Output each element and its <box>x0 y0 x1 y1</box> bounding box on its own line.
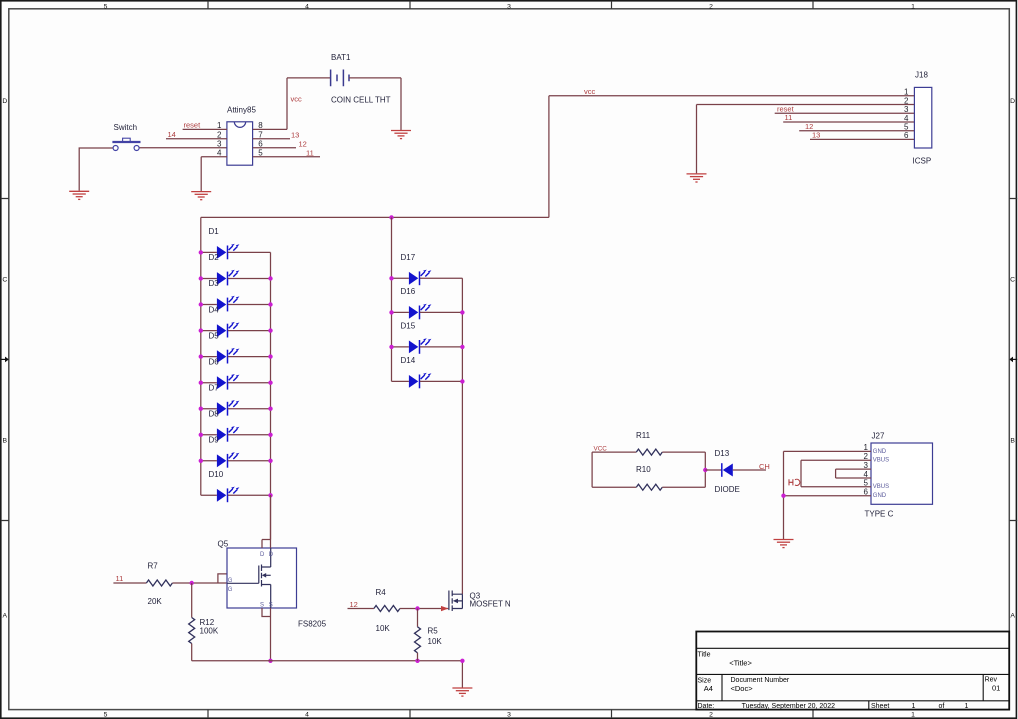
svg-text:D: D <box>2 98 7 105</box>
wire D9 cathode <box>228 460 271 462</box>
wire D4 anode <box>201 330 217 332</box>
svg-text:vcc: vcc <box>584 87 596 96</box>
svg-text:Q5: Q5 <box>218 540 229 549</box>
svg-text:6: 6 <box>258 140 263 149</box>
wire D8 anode <box>201 434 217 436</box>
svg-text:5: 5 <box>258 149 263 158</box>
wire U1 pin5 net 11 <box>253 156 320 158</box>
svg-text:100K: 100K <box>200 627 219 636</box>
svg-text:G: G <box>228 578 233 584</box>
svg-text:J27: J27 <box>872 431 885 440</box>
wire switch to ground <box>79 148 113 191</box>
wire R7 to Q5 gate G2 <box>172 582 227 584</box>
junction anode bus <box>199 276 203 280</box>
svg-text:10K: 10K <box>376 624 391 633</box>
svg-text:4: 4 <box>904 114 909 123</box>
junction anode bus <box>199 250 203 254</box>
resistor R4 <box>374 606 400 612</box>
svg-text:4: 4 <box>864 470 869 479</box>
Q5 internal MOSFET symbol <box>227 548 271 608</box>
svg-text:S: S <box>260 603 264 609</box>
svg-text:2: 2 <box>904 96 909 105</box>
resistor R10 <box>636 484 662 490</box>
svg-text:A4: A4 <box>704 684 713 693</box>
ground rail <box>452 688 472 696</box>
svg-text:D14: D14 <box>401 356 416 365</box>
wire battery right to ground <box>349 78 401 130</box>
border ticks top <box>208 1 813 9</box>
svg-text:TYPE C: TYPE C <box>865 510 894 519</box>
svg-text:5: 5 <box>904 123 909 132</box>
junction J27 ground node <box>781 494 785 498</box>
border mid arrow right <box>1013 358 1017 360</box>
transistor Q3 MOSFET N symbol <box>449 591 463 612</box>
dual MOSFET U Q5 FS8205 body <box>227 548 297 608</box>
wire LED array 2 cathode bus to Q3 drain <box>461 278 463 594</box>
wire LED array 2 anode bus <box>391 217 393 381</box>
svg-text:Rev: Rev <box>985 677 998 684</box>
net label CH rotated at J27 <box>789 479 800 485</box>
svg-text:5: 5 <box>104 4 108 11</box>
wire vcc feed to LED arrays <box>201 216 549 218</box>
junction anode bus 2 <box>389 276 393 280</box>
svg-text:4: 4 <box>217 149 222 158</box>
wire LED array 1 cathode bus <box>270 252 272 539</box>
junction anode bus <box>199 407 203 411</box>
svg-text:3: 3 <box>507 4 511 11</box>
junction anode bus <box>199 302 203 306</box>
svg-text:6: 6 <box>904 131 909 140</box>
svg-text:<Title>: <Title> <box>729 659 752 668</box>
LED D3 <box>217 296 240 312</box>
junction R5 / rail <box>415 659 419 663</box>
wire vcc run to J18 pin1 <box>549 96 915 218</box>
svg-text:8: 8 <box>258 121 263 130</box>
wire D14 cathode <box>420 380 463 382</box>
svg-text:of: of <box>939 703 945 710</box>
diode D13 <box>722 463 733 477</box>
svg-text:<Doc>: <Doc> <box>731 684 754 693</box>
wire D17 anode <box>392 277 409 279</box>
switch SW1 pushbutton <box>112 138 140 150</box>
junction cathode bus 2 <box>460 310 464 314</box>
LED D6 <box>217 374 240 390</box>
svg-text:1: 1 <box>911 4 915 11</box>
svg-text:R10: R10 <box>636 465 651 474</box>
LED D15 <box>409 338 432 354</box>
svg-text:MOSFET N: MOSFET N <box>470 600 511 609</box>
svg-text:1: 1 <box>911 712 915 719</box>
wire D4 cathode <box>228 330 271 332</box>
ground battery <box>391 131 411 139</box>
border ticks right <box>1009 199 1017 521</box>
svg-text:D17: D17 <box>401 253 416 262</box>
svg-text:GND: GND <box>873 449 887 455</box>
svg-text:D15: D15 <box>401 322 416 331</box>
svg-text:6: 6 <box>864 488 869 497</box>
svg-text:D5: D5 <box>209 331 220 340</box>
svg-text:1: 1 <box>965 703 969 710</box>
svg-text:Switch: Switch <box>114 123 138 132</box>
wire to D13 anode <box>705 469 722 471</box>
svg-text:G: G <box>228 587 233 593</box>
svg-text:3: 3 <box>507 712 511 719</box>
wire J27 pin6 GND <box>784 495 872 497</box>
svg-text:reset: reset <box>184 121 202 130</box>
svg-text:D2: D2 <box>209 253 220 262</box>
junction R11/R10/D13 <box>703 468 707 472</box>
wire R5 bottom lead <box>417 653 419 661</box>
wire J18 pin4 net 11 <box>783 121 914 123</box>
wire J18 pin6 net 13 <box>810 138 914 140</box>
junction R4/R5/Q3 <box>415 606 419 610</box>
wire D1 anode <box>201 251 217 253</box>
wire D15 anode <box>392 346 409 348</box>
junction cathode bus <box>268 381 272 385</box>
svg-text:Date:: Date: <box>698 703 715 710</box>
title block frame <box>696 632 1009 710</box>
svg-text:12: 12 <box>350 600 358 609</box>
wire D1 cathode <box>228 251 271 253</box>
wire net 11 to R7 <box>113 582 146 584</box>
wire R5 top lead <box>417 609 419 627</box>
connector J18 body <box>914 87 931 148</box>
svg-text:Document Number: Document Number <box>731 677 790 684</box>
battery BAT1 <box>331 70 349 87</box>
wire R12 top lead <box>191 583 193 618</box>
wire R12 bottom lead <box>191 644 193 661</box>
LED D10 <box>217 487 240 503</box>
wire D3 cathode <box>228 304 271 306</box>
svg-text:11: 11 <box>306 149 314 158</box>
wire D5 cathode <box>228 356 271 358</box>
junction cathode bus <box>268 276 272 280</box>
svg-text:Attiny85: Attiny85 <box>227 106 256 115</box>
wire D2 anode <box>201 278 217 280</box>
wire D16 cathode <box>420 311 463 313</box>
wire switch to U1 pin 3 <box>139 147 227 149</box>
LED D5 <box>217 348 240 364</box>
svg-text:R5: R5 <box>428 627 439 636</box>
svg-text:12: 12 <box>299 140 307 149</box>
wire R10 left <box>592 486 636 488</box>
svg-text:14: 14 <box>168 130 176 139</box>
svg-text:5: 5 <box>104 712 108 719</box>
svg-text:BAT1: BAT1 <box>331 53 351 62</box>
svg-text:vcc: vcc <box>291 95 303 104</box>
svg-text:VCC: VCC <box>594 445 608 452</box>
wire net 12 to R4 <box>348 608 374 610</box>
svg-text:FS8205: FS8205 <box>298 620 327 629</box>
wire J27 pin2-pin5 VBUS loop <box>801 460 871 487</box>
svg-text:C: C <box>2 276 7 283</box>
svg-text:3: 3 <box>217 140 222 149</box>
svg-text:R11: R11 <box>636 431 651 440</box>
svg-text:D: D <box>269 552 274 558</box>
svg-text:5: 5 <box>864 479 869 488</box>
svg-text:1: 1 <box>864 443 869 452</box>
svg-text:COIN CELL THT: COIN CELL THT <box>331 96 391 105</box>
wire J18 pin3 reset <box>775 112 915 114</box>
wire D10 cathode <box>228 494 271 496</box>
wire D10 anode <box>201 494 217 496</box>
svg-text:1: 1 <box>904 88 909 97</box>
wire jog to Q5 gate G1 <box>218 574 227 583</box>
svg-text:10K: 10K <box>428 637 443 646</box>
LED D16 <box>409 304 432 320</box>
LED D4 <box>217 322 240 338</box>
wire R4 to Q3 gate <box>400 608 448 610</box>
LED D14 <box>409 373 432 389</box>
wire rail to ground <box>461 661 463 688</box>
junction cathode bus <box>268 493 272 497</box>
svg-text:J18: J18 <box>915 71 928 80</box>
svg-text:D: D <box>1010 98 1015 105</box>
svg-text:3: 3 <box>864 461 869 470</box>
junction anode bus <box>199 433 203 437</box>
wire D17 cathode <box>420 277 463 279</box>
junction anode bus 2 <box>389 345 393 349</box>
svg-text:D6: D6 <box>209 357 220 366</box>
svg-text:3: 3 <box>904 105 909 114</box>
svg-text:B: B <box>3 437 8 444</box>
LED D2 <box>217 270 240 286</box>
wire J27 pin1 GND loop <box>784 451 872 539</box>
junction cathode bus <box>268 407 272 411</box>
junction cathode bus <box>268 302 272 306</box>
border ticks bottom <box>208 710 813 718</box>
junction cathode bus 2 <box>460 379 464 383</box>
junction anode bus <box>199 459 203 463</box>
junction cathode bus <box>268 459 272 463</box>
svg-text:VBUS: VBUS <box>873 458 889 464</box>
svg-text:11: 11 <box>785 113 793 122</box>
wire D6 cathode <box>228 382 271 384</box>
wire Q5 source to rail <box>270 608 272 661</box>
junction cathode bus 2 <box>460 345 464 349</box>
svg-text:R4: R4 <box>376 588 387 597</box>
wire D8 cathode <box>228 434 271 436</box>
wire R11 right <box>662 452 705 470</box>
junction Q3 source / rail / ground <box>460 659 464 663</box>
junction anode bus <box>199 328 203 332</box>
svg-text:4: 4 <box>305 712 309 719</box>
wire D7 cathode <box>228 408 271 410</box>
wire J18 pin2 to ground <box>697 105 915 174</box>
junction cathode bus <box>268 354 272 358</box>
svg-text:reset: reset <box>777 104 795 113</box>
svg-text:D4: D4 <box>209 305 220 314</box>
LED D8 <box>217 426 240 442</box>
svg-text:VBUS: VBUS <box>873 484 889 490</box>
IC U1 Attiny85 body <box>227 122 253 166</box>
wire LED array 1 anode bus <box>200 217 202 495</box>
svg-text:2: 2 <box>709 712 713 719</box>
wire U1 pin8 to vcc battery <box>253 78 287 129</box>
wire D2 cathode <box>228 278 271 280</box>
wire D6 anode <box>201 382 217 384</box>
wire vcc to R11/R10 left <box>592 452 636 487</box>
svg-text:12: 12 <box>805 122 813 131</box>
wire D13 cathode net CH <box>733 469 766 471</box>
svg-text:13: 13 <box>812 131 820 140</box>
LED D1 <box>217 244 240 260</box>
svg-text:D9: D9 <box>209 436 220 445</box>
svg-text:D3: D3 <box>209 279 220 288</box>
svg-text:CH: CH <box>759 462 770 471</box>
svg-text:7: 7 <box>258 131 263 140</box>
wire D14 anode <box>392 380 409 382</box>
junction cathode bus <box>268 433 272 437</box>
svg-text:1: 1 <box>217 121 222 130</box>
svg-text:11: 11 <box>116 574 124 583</box>
wire J18 pin5 net 12 <box>799 130 914 132</box>
svg-text:20K: 20K <box>148 597 163 606</box>
svg-text:01: 01 <box>992 684 1000 693</box>
junction anode bus <box>199 354 203 358</box>
svg-text:2: 2 <box>217 131 222 140</box>
svg-text:S: S <box>269 603 273 609</box>
svg-text:ICSP: ICSP <box>913 157 932 166</box>
svg-text:D16: D16 <box>401 287 416 296</box>
svg-text:D13: D13 <box>715 449 730 458</box>
border ticks left <box>1 199 9 521</box>
wire ground rail <box>192 660 463 662</box>
wire R10 right <box>662 470 705 487</box>
svg-text:C: C <box>1010 276 1015 283</box>
junction R7/R12/Q5 <box>190 581 194 585</box>
junction cathode bus <box>268 328 272 332</box>
wire D5 anode <box>201 356 217 358</box>
resistor R11 <box>636 449 662 455</box>
svg-text:A: A <box>3 612 8 619</box>
ground J27 <box>774 540 794 548</box>
wire U1 pin2 net 14 <box>166 138 227 140</box>
wire U1 pin4 to ground <box>201 157 227 191</box>
junction anode bus 2 <box>389 310 393 314</box>
svg-text:2: 2 <box>709 4 713 11</box>
svg-text:R7: R7 <box>148 562 159 571</box>
border mid arrow left <box>1 358 5 360</box>
junction anode bus <box>199 381 203 385</box>
svg-text:13: 13 <box>291 131 299 140</box>
wire D15 cathode <box>420 346 463 348</box>
wire D16 anode <box>392 311 409 313</box>
connector J27 body <box>871 443 933 504</box>
svg-text:Sheet: Sheet <box>871 703 889 710</box>
wire LED cathode bus to Q5 drain <box>270 495 272 548</box>
svg-text:4: 4 <box>305 4 309 11</box>
svg-text:Title: Title <box>698 651 711 658</box>
wire jog Q5 source S1 <box>262 608 271 617</box>
ground U1 pin4 <box>191 192 211 200</box>
LED D17 <box>409 270 432 286</box>
ground switch <box>69 191 89 199</box>
LED D9 <box>217 452 240 468</box>
wire U1 pin6 net 12 <box>253 147 296 149</box>
resistor R7 <box>146 580 172 586</box>
svg-text:D1: D1 <box>209 227 220 236</box>
wire U1 pin7 net 13 <box>253 138 290 140</box>
svg-text:1: 1 <box>912 703 916 710</box>
wire battery left <box>287 77 331 79</box>
svg-text:A: A <box>1010 612 1015 619</box>
svg-text:B: B <box>1010 437 1015 444</box>
svg-text:2: 2 <box>864 452 869 461</box>
wire D3 anode <box>201 304 217 306</box>
wire jog Q5 drain D1 <box>262 540 271 549</box>
wire D7 anode <box>201 408 217 410</box>
wire D9 anode <box>201 460 217 462</box>
svg-text:D10: D10 <box>209 470 224 479</box>
junction Q5 source / rail <box>268 659 272 663</box>
svg-text:DIODE: DIODE <box>715 485 740 494</box>
svg-text:Tuesday, September 20, 2022: Tuesday, September 20, 2022 <box>742 703 835 710</box>
svg-text:GND: GND <box>873 493 887 499</box>
svg-text:D8: D8 <box>209 410 220 419</box>
junction vcc feed / LED array 2 <box>389 215 393 219</box>
svg-text:D: D <box>260 552 265 558</box>
ground J18 pin2 <box>687 174 707 182</box>
wire U1 pin1 reset <box>183 128 227 130</box>
LED D7 <box>217 400 240 416</box>
wire J27 pin3-pin4 loop <box>836 469 871 478</box>
red arrow at Q3 gate <box>441 606 448 611</box>
svg-text:D7: D7 <box>209 383 220 392</box>
